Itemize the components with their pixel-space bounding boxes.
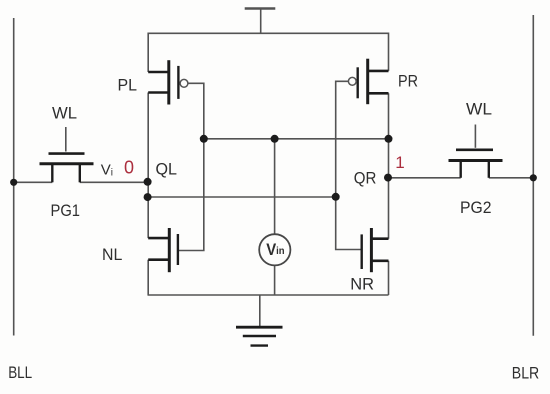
power VDD symbol	[245, 9, 276, 34]
svg-text:PR: PR	[398, 71, 418, 90]
wire cross node 2	[148, 196, 336, 198]
transistor PL	[148, 60, 188, 104]
svg-text:WL: WL	[466, 100, 492, 119]
svg-text:QR: QR	[354, 169, 377, 188]
wire PG1 to QL	[80, 181, 148, 183]
wire top VDD rail	[148, 33, 388, 72]
wire node QL left rail	[147, 93, 149, 239]
wire left rail lower segment	[147, 260, 149, 295]
svg-text:BLL: BLL	[8, 363, 32, 382]
svg-text:Vi: Vi	[101, 162, 113, 179]
svg-text:QL: QL	[156, 160, 178, 179]
node junction dot cross1 right	[385, 135, 393, 143]
wire BLL rail	[13, 18, 15, 336]
svg-text:PG2: PG2	[460, 198, 492, 217]
transistor PR	[348, 59, 388, 104]
wire bottom rail	[148, 294, 389, 296]
wire Vin bottom stem	[274, 266, 276, 296]
wire cross-couple QL to PR/NR gates	[336, 81, 362, 249]
svg-text:NR: NR	[350, 275, 374, 294]
svg-text:PL: PL	[118, 76, 138, 95]
transistor PG2	[449, 150, 503, 178]
ground	[236, 327, 283, 345]
svg-text:WL: WL	[52, 104, 77, 123]
wire cross node 1	[204, 138, 389, 140]
transistor PG1	[40, 154, 94, 183]
transistor NR	[362, 228, 389, 272]
wire WL gate lead right	[474, 125, 476, 148]
transistor NL	[148, 228, 178, 272]
node QR junction dot	[384, 174, 392, 182]
node junction dot cross1 left	[200, 135, 208, 143]
source Vin	[259, 234, 290, 265]
wire PG1 to BLL	[14, 181, 53, 183]
node QL junction dot upper	[144, 178, 152, 186]
svg-text:NL: NL	[102, 245, 122, 264]
svg-text:1: 1	[395, 153, 404, 172]
wire node QR right rail	[388, 93, 390, 238]
node BLR junction dot	[530, 174, 537, 181]
svg-text:0: 0	[124, 158, 134, 178]
node junction dot cross1 center	[271, 135, 279, 143]
node junction dot cross2 right	[332, 193, 340, 201]
wire PG2 to QR	[389, 177, 461, 179]
wire BLR rail	[532, 15, 534, 336]
svg-text:PG1: PG1	[51, 201, 81, 220]
svg-text:BLR: BLR	[512, 363, 539, 382]
wire cross-couple QR to PL/NL gates	[178, 83, 204, 250]
node QL junction dot lower	[144, 193, 152, 201]
wire Vin top stem	[274, 139, 276, 235]
wire ground stem	[259, 295, 261, 327]
node BLL junction dot	[10, 179, 17, 186]
wire PG2 to BLR	[489, 177, 534, 179]
wire right rail lower segment	[388, 261, 390, 295]
wire WL gate lead left	[65, 127, 67, 152]
